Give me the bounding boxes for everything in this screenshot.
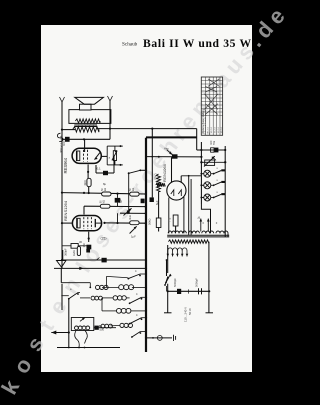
svg-text:360pF: 360pF xyxy=(63,248,67,256)
svg-text:RENS1264: RENS1264 xyxy=(63,200,68,221)
svg-text:30: 30 xyxy=(79,240,82,244)
svg-text:110…240 V: 110…240 V xyxy=(184,307,188,322)
svg-text:1μF: 1μF xyxy=(119,198,123,203)
svg-text:1μF: 1μF xyxy=(131,235,136,239)
svg-text:Bali II W und 35 W: Bali II W und 35 W xyxy=(143,37,252,50)
svg-text:5000pF: 5000pF xyxy=(173,278,177,287)
svg-text:kΩ: kΩ xyxy=(103,200,106,203)
svg-text:10-2-6: 10-2-6 xyxy=(218,126,220,133)
svg-text:Bereich Kontakt geschl.: Bereich Kontakt geschl. xyxy=(204,109,207,132)
svg-text:kΩ: kΩ xyxy=(132,188,135,191)
svg-text:RES964: RES964 xyxy=(63,157,68,173)
svg-text:50 W: 50 W xyxy=(188,308,192,315)
svg-text:77kΩ: 77kΩ xyxy=(154,173,158,180)
svg-text:RGN1064: RGN1064 xyxy=(162,163,167,182)
svg-text:772: 772 xyxy=(167,217,171,222)
svg-text:3kΩ: 3kΩ xyxy=(83,180,87,185)
svg-text:5000pF: 5000pF xyxy=(195,278,199,287)
svg-text:5W: 5W xyxy=(213,140,216,144)
svg-text:Hsp: Hsp xyxy=(164,147,169,151)
svg-text:8μ: 8μ xyxy=(103,182,107,186)
svg-text:≈6 7 8: ≈6 7 8 xyxy=(204,132,211,135)
svg-text:Schaub: Schaub xyxy=(122,41,138,47)
svg-text:kΩ: kΩ xyxy=(104,188,107,191)
svg-text:1MΩ: 1MΩ xyxy=(72,250,76,256)
svg-text:10-2-6: 10-2-6 xyxy=(211,126,213,133)
svg-text:〈25〉: 〈25〉 xyxy=(99,237,109,241)
svg-text:2μ: 2μ xyxy=(197,216,201,219)
svg-text:10-2-6: 10-2-6 xyxy=(221,126,223,133)
svg-text:50kΩ: 50kΩ xyxy=(148,219,152,225)
svg-text:1kΩ: 1kΩ xyxy=(129,215,132,220)
svg-text:0,1: 0,1 xyxy=(97,166,102,170)
svg-text:10-2-6: 10-2-6 xyxy=(214,126,216,133)
svg-text:150: 150 xyxy=(82,243,86,248)
